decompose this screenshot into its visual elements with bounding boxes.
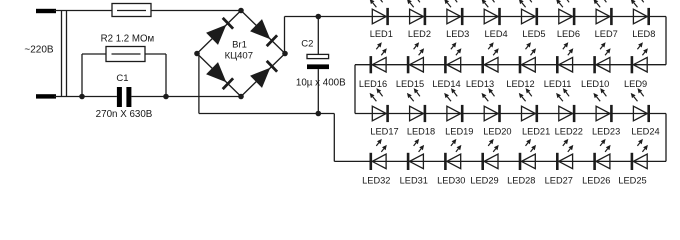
label LED23 [592,126,620,136]
label LED24 [631,126,659,136]
value 10µ x 400В [296,78,346,89]
svg-text:LED7: LED7 [595,29,618,39]
LED24 [631,88,649,122]
svg-text:LED4: LED4 [485,29,508,39]
LED10 [595,42,611,73]
label LED19 [445,126,473,136]
wire top from terminal [54,10,112,12]
svg-text:LED16: LED16 [359,79,387,89]
wire plus rail to LED row1 [285,16,373,18]
LED21 [519,88,537,122]
wire LED row3 [355,113,666,115]
label LED14 [432,79,460,89]
diode bridge bottom-right [241,54,285,97]
svg-text:LED28: LED28 [507,176,535,186]
wire bottom from terminal [54,96,117,98]
label LED5 [522,29,545,39]
wire left drop row2-row3 [354,65,356,114]
diode bridge top-left [197,11,241,54]
svg-text:LED32: LED32 [362,176,390,186]
LED29 [483,139,499,170]
label LED12 [506,79,534,89]
wire LED row4 [372,160,666,162]
label LED27 [545,176,573,186]
terminal bottom input [36,94,56,98]
svg-text:LED21: LED21 [522,126,550,136]
LED6 [556,0,574,25]
node bridge right plus [282,51,288,57]
svg-text:LED24: LED24 [631,126,659,136]
label LED32 [362,176,390,186]
label LED15 [396,79,424,89]
LED18 [407,88,425,122]
LED27 [557,139,573,170]
LED14 [445,42,461,73]
LED19 [444,88,462,122]
node C2 top junction [316,14,322,20]
LED1 [370,0,388,25]
label LED3 [446,29,469,39]
svg-text:LED6: LED6 [557,29,580,39]
label LED17 [370,126,398,136]
value 270n X 630В [96,109,153,120]
svg-text:LED29: LED29 [470,176,498,186]
label LED30 [437,176,465,186]
svg-text:LED14: LED14 [432,79,460,89]
LED23 [593,88,611,122]
node bridge top AC [238,8,244,14]
LED9 [632,42,648,73]
svg-text:LED8: LED8 [632,29,655,39]
wire R2 left horizontal [82,53,106,55]
svg-text:КЦ407: КЦ407 [225,51,253,62]
LED7 [593,0,611,25]
LED3 [444,0,462,25]
label LED18 [407,126,435,136]
wire R2 right horizontal [145,53,166,55]
label C1 [116,73,128,84]
diode bridge bottom-left [197,54,241,97]
svg-text:270n X 630В: 270n X 630В [96,109,153,120]
LED17 [370,88,388,122]
label LED2 [408,29,431,39]
node C2 bottom junction [316,111,322,117]
LED30 [445,139,461,170]
svg-text:LED1: LED1 [370,29,393,39]
label LED11 [544,79,572,89]
LED8 [631,0,649,25]
diode bridge top-right [241,11,285,54]
svg-text:LED20: LED20 [483,126,511,136]
svg-text:~220В: ~220В [24,45,54,56]
resistor R2 [106,47,145,62]
label LED28 [507,176,535,186]
svg-text:LED3: LED3 [446,29,469,39]
lamp base double line [62,11,67,97]
capacitor C2 [307,54,329,69]
wire fuse to bridge [151,10,241,12]
svg-text:LED10: LED10 [581,79,609,89]
wire plus vertical from bridge [284,17,286,54]
svg-text:LED17: LED17 [370,126,398,136]
label LED9 [624,79,647,89]
svg-text:LED23: LED23 [592,126,620,136]
label LED22 [555,126,583,136]
node bridge left minus [194,51,200,57]
svg-text:LED26: LED26 [582,176,610,186]
LED4 [482,0,500,25]
label LED26 [582,176,610,186]
LED28 [520,139,536,170]
LED13 [483,42,499,73]
LED31 [408,139,424,170]
wire right drop row3-row4 [665,114,667,162]
wire R2 right vertical [165,54,167,97]
svg-text:LED2: LED2 [408,29,431,39]
label LED4 [485,29,508,39]
node C1 right junction [163,94,169,100]
fuse F1 [112,4,151,17]
svg-text:LED31: LED31 [400,176,428,186]
svg-text:Br1: Br1 [232,40,247,51]
wire R2 left vertical [81,54,83,97]
label LED31 [400,176,428,186]
svg-text:LED18: LED18 [407,126,435,136]
LED2 [407,0,425,25]
wire LED row1 [373,16,667,18]
wire right drop row1-row2 [665,17,667,65]
svg-text:C2: C2 [301,39,313,50]
label LED13 [466,79,494,89]
label LED1 [370,29,393,39]
wire minus rail [199,113,334,115]
label LED21 [522,126,550,136]
LED12 [520,42,536,73]
label ~220В [24,45,54,56]
LED32 [371,139,387,170]
LED16 [371,42,387,73]
node C1 left junction [79,94,85,100]
svg-text:LED9: LED9 [624,79,647,89]
label LED29 [470,176,498,186]
svg-text:LED27: LED27 [545,176,573,186]
LED15 [408,42,424,73]
label LED7 [595,29,618,39]
label LED16 [359,79,387,89]
label LED25 [618,176,646,186]
svg-text:10µ x 400В: 10µ x 400В [296,78,346,89]
svg-text:LED5: LED5 [522,29,545,39]
svg-text:LED22: LED22 [555,126,583,136]
capacitor C1 [117,87,131,107]
svg-text:LED12: LED12 [506,79,534,89]
svg-text:LED30: LED30 [437,176,465,186]
svg-text:LED15: LED15 [396,79,424,89]
wire LED row2 [355,64,666,66]
label LED20 [483,126,511,136]
svg-text:C1: C1 [116,73,128,84]
wire minus drop to row4 [333,114,335,162]
wire minus vertical from bridge [198,54,200,114]
wire row4 left lead [334,160,372,162]
label LED10 [581,79,609,89]
node bridge bottom AC [238,94,244,100]
label LED6 [557,29,580,39]
LED11 [557,42,573,73]
terminal top input [36,9,56,13]
LED26 [595,139,611,170]
label LED8 [632,29,655,39]
LED25 [632,139,648,170]
svg-text:LED19: LED19 [445,126,473,136]
svg-text:LED25: LED25 [618,176,646,186]
label C2 [301,39,313,50]
LED20 [482,88,500,122]
svg-text:LED11: LED11 [544,79,572,89]
label Br1 [232,40,247,51]
LED22 [556,88,574,122]
wire C2 bottom lead [317,69,319,113]
wire C2 top lead [317,17,319,55]
label R2 1.2 МОм [101,34,155,45]
svg-text:R2 1.2 МОм: R2 1.2 МОм [101,34,155,45]
label КЦ407 [225,51,253,62]
LED5 [519,0,537,25]
wire C1 to bridge [131,96,241,98]
svg-text:LED13: LED13 [466,79,494,89]
